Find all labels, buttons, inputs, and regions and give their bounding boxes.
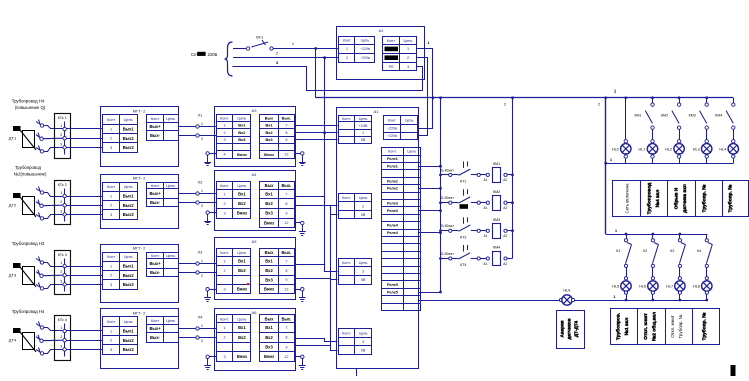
- label 1 top lamp return: [610, 157, 613, 162]
- svg-text:Откл. юнит: Откл. юнит: [643, 313, 649, 340]
- svg-text:Цепь: Цепь: [359, 332, 368, 336]
- lamp feed vertical right: [604, 98, 607, 234]
- svg-text:Вх2: Вх2: [238, 335, 246, 340]
- svg-text:Цепь: Цепь: [405, 119, 414, 123]
- svg-text:КТс 4: КТс 4: [58, 318, 67, 322]
- svg-text:2: 2: [223, 202, 225, 206]
- svg-text:Вых1: Вых1: [123, 127, 135, 132]
- А5 table left: [216, 249, 251, 294]
- wire HL0 feed: [625, 98, 627, 140]
- svg-text:Вх3: Вх3: [238, 137, 246, 142]
- svg-text:К1: К1: [616, 249, 620, 253]
- module MGT-2 #1: [101, 107, 179, 167]
- pipeline label channel 1: [12, 99, 46, 111]
- svg-text:№1 вкл: №1 вкл: [624, 318, 630, 336]
- svg-text:ДТ3: ДТ3: [9, 273, 17, 278]
- svg-text:Реле3: Реле3: [387, 209, 398, 213]
- bus label 2a: [504, 103, 506, 107]
- svg-text:Вниз: Вниз: [237, 287, 247, 292]
- svg-text:Цепь: Цепь: [359, 196, 368, 200]
- svg-text:HL5: HL5: [612, 285, 619, 289]
- svg-text:Цепь: Цепь: [124, 185, 133, 189]
- svg-text:К2: К2: [643, 249, 647, 253]
- svg-text:Конт: Конт: [151, 117, 159, 121]
- svg-text:7: 7: [285, 326, 287, 330]
- svg-text:1: 1: [362, 131, 364, 135]
- svg-text:Вых3: Вых3: [123, 347, 135, 352]
- MGT-2 #4 table right: [147, 317, 179, 343]
- svg-text:Вх3: Вх3: [265, 345, 273, 350]
- ground left of А5: [204, 288, 216, 302]
- svg-text:1: 1: [346, 47, 348, 51]
- signal lamp HL2: [665, 140, 684, 164]
- legend box HL9: [557, 311, 585, 349]
- svg-text:К4: К4: [697, 249, 701, 253]
- A1 power table 220V: [383, 116, 417, 140]
- svg-text:3: 3: [110, 213, 112, 217]
- wires КТс 1 to MGT-2: [66, 129, 103, 148]
- svg-text:Конт: Конт: [107, 118, 115, 122]
- wire A2 N out to A1: [417, 58, 428, 136]
- signal lamp HL7: [666, 277, 685, 300]
- svg-text:Реле2: Реле2: [387, 187, 398, 191]
- svg-text:Цепь: Цепь: [124, 320, 133, 324]
- svg-text:Конт.: Конт.: [342, 117, 351, 121]
- svg-text:Цепь: Цепь: [359, 117, 368, 121]
- svg-text:Вых2: Вых2: [123, 273, 135, 278]
- bus label 1: [614, 89, 617, 94]
- svg-text:Вх1: Вх1: [238, 259, 246, 264]
- svg-text:1: 1: [201, 259, 203, 263]
- svg-text:Вх2: Вх2: [238, 268, 246, 273]
- connector X1: [178, 114, 216, 142]
- svg-text:8: 8: [285, 202, 287, 206]
- svg-text:Цепь: Цепь: [124, 255, 133, 259]
- wires КТс 2 to MGT-2: [66, 197, 103, 215]
- relay contact К1: [616, 233, 631, 277]
- svg-text:КМ3: КМ3: [689, 114, 696, 118]
- svg-text:Б.Юнит: Б.Юнит: [441, 252, 454, 256]
- svg-text:HL7: HL7: [666, 285, 673, 289]
- terminal box КТс 3: [55, 251, 71, 295]
- timer contact KT2: [439, 189, 470, 209]
- svg-text:1: 1: [110, 195, 112, 199]
- svg-text:КМ2: КМ2: [661, 114, 668, 118]
- svg-text:SF1: SF1: [256, 35, 264, 40]
- A1 table XT2: [338, 193, 372, 219]
- svg-text:1: 1: [110, 128, 112, 132]
- svg-text:Конт.: Конт.: [388, 119, 396, 123]
- svg-text:8: 8: [285, 336, 287, 340]
- svg-text:1: 1: [110, 330, 112, 334]
- svg-text:Конт.: Конт.: [387, 39, 396, 43]
- svg-text:2: 2: [110, 137, 112, 141]
- ground right of А4: [296, 221, 306, 235]
- MGT-2 #2 table left: [103, 182, 138, 220]
- temperature sensor ДТ2: [9, 187, 44, 221]
- module MGT-2 #2: [101, 175, 179, 229]
- svg-text:Реле4: Реле4: [387, 231, 399, 235]
- A1 table XT3: [338, 258, 372, 284]
- svg-text:Вниз: Вниз: [264, 354, 274, 359]
- svg-text:Цепь: Цепь: [404, 39, 413, 43]
- svg-text:Вых3: Вых3: [123, 212, 135, 217]
- svg-text:X2: X2: [198, 181, 203, 185]
- legend box bottom lamps: [611, 308, 720, 344]
- svg-text:А4: А4: [252, 172, 258, 177]
- svg-text:Реле4: Реле4: [387, 224, 399, 228]
- wires sensor to КТс 3: [43, 263, 63, 289]
- timer contact KT3: [439, 217, 470, 239]
- svg-text:Цепь: Цепь: [237, 184, 246, 188]
- timer contact KT4: [439, 245, 470, 267]
- wire number 1 (top): [292, 41, 295, 46]
- svg-text:А1: А1: [484, 262, 488, 266]
- svg-text:HL3: HL3: [693, 147, 700, 151]
- ground right of А5: [296, 288, 306, 302]
- svg-text:МГТ- 2: МГТ- 2: [133, 246, 146, 251]
- svg-text:HL0: HL0: [612, 147, 619, 151]
- wires A6 to A1 XT4: [296, 339, 338, 351]
- svg-text:КМ4: КМ4: [493, 246, 500, 250]
- svg-text:Трубопровод Н3: Трубопровод Н3: [12, 241, 45, 246]
- ground right of А3: [296, 152, 306, 166]
- temperature sensor ДТ4: [9, 322, 44, 356]
- svg-text:Вых-: Вых-: [150, 200, 161, 205]
- MGT-2 #1 table right: [147, 115, 179, 141]
- svg-text:2: 2: [60, 200, 62, 204]
- svg-text:А6: А6: [252, 310, 258, 315]
- svg-text:А5: А5: [252, 239, 258, 244]
- signal lamp HL4: [719, 140, 738, 164]
- svg-text:Реле5: Реле5: [387, 283, 398, 287]
- svg-text:2: 2: [362, 204, 364, 208]
- wire N drop: [323, 56, 326, 134]
- svg-text:Трубопровод: Трубопровод: [646, 183, 653, 215]
- ground left of А3: [204, 152, 216, 166]
- connector X2: [178, 181, 216, 209]
- svg-text:Вх2: Вх2: [265, 201, 273, 206]
- svg-text:8: 8: [285, 269, 287, 273]
- svg-text:3: 3: [362, 269, 364, 273]
- svg-text:Цепь: Цепь: [124, 118, 133, 122]
- svg-text:Вх2: Вх2: [265, 130, 273, 135]
- svg-text:Конт.: Конт.: [343, 39, 351, 43]
- vertical net 0V chain B: [330, 205, 332, 345]
- svg-text:~220в: ~220в: [360, 47, 370, 51]
- svg-text:Вх2: Вх2: [238, 201, 246, 206]
- svg-text:1: 1: [201, 189, 203, 193]
- svg-text:А2: А2: [379, 28, 385, 33]
- terminal box КТс 2: [55, 181, 71, 225]
- svg-text:Вых3: Вых3: [123, 145, 135, 150]
- svg-text:датчиков: датчиков: [567, 318, 572, 339]
- svg-text:Б.Юнит: Б.Юнит: [441, 224, 454, 228]
- svg-text:PE: PE: [389, 65, 395, 69]
- svg-text:Трубопровод Н4: Трубопровод Н4: [12, 309, 45, 314]
- signal lamp HL8: [693, 277, 712, 300]
- controller A1: [337, 108, 419, 369]
- contactor coil KM1: [471, 162, 513, 182]
- svg-text:1: 1: [60, 326, 62, 330]
- svg-text:Цепь: Цепь: [237, 317, 246, 321]
- signal lamp HL3: [693, 140, 712, 164]
- MGT-2 #2 table right: [147, 182, 179, 207]
- А5 table right: [260, 249, 295, 294]
- svg-text:Цепь: Цепь: [166, 254, 175, 258]
- wires A1 relay outputs: [419, 165, 442, 294]
- svg-text:Вых2: Вых2: [123, 136, 135, 141]
- svg-text:7: 7: [285, 259, 287, 263]
- svg-text:Вых.: Вых.: [281, 183, 291, 188]
- svg-text:Вниз: Вниз: [237, 211, 247, 216]
- svg-text:3: 3: [407, 65, 409, 69]
- svg-text:Вых.: Вых.: [281, 316, 291, 321]
- svg-text:8: 8: [285, 131, 287, 135]
- svg-text:Конт.: Конт.: [220, 116, 229, 120]
- svg-text:Вниз: Вниз: [237, 354, 247, 359]
- svg-text:HL1: HL1: [639, 147, 646, 151]
- svg-text:3: 3: [223, 355, 225, 359]
- svg-text:Вх1: Вх1: [238, 192, 246, 197]
- А4 table right: [260, 182, 295, 228]
- svg-text:Реле5: Реле5: [387, 290, 398, 294]
- wires A4 to A1 XT2: [296, 197, 338, 215]
- MGT-2 #3 table right: [147, 252, 179, 277]
- svg-text:2: 2: [201, 204, 203, 208]
- svg-text:7: 7: [285, 193, 287, 197]
- svg-text:HL9: HL9: [563, 289, 570, 293]
- svg-text:А1: А1: [484, 206, 488, 210]
- svg-text:HL2: HL2: [665, 147, 672, 151]
- temperature sensor ДТ3: [9, 257, 44, 291]
- wire PE run: [233, 67, 423, 91]
- connector X3: [178, 251, 216, 279]
- svg-text:1: 1: [223, 259, 225, 263]
- brace for mains: [225, 42, 233, 76]
- svg-text:Конт.: Конт.: [220, 317, 229, 321]
- timer contact KT1: [439, 161, 470, 183]
- contactor contact КМ3: [689, 98, 709, 142]
- wires A5 to A1 XT3: [296, 265, 338, 280]
- svg-text:Вх3: Вх3: [265, 277, 273, 282]
- svg-text:МГТ- 2: МГТ- 2: [133, 176, 146, 181]
- black corner mark: [731, 365, 736, 376]
- return wire bottom with lamp HL9: [419, 289, 709, 306]
- svg-text:МГТ- 2: МГТ- 2: [133, 109, 146, 114]
- svg-text:Вниз: Вниз: [264, 152, 274, 157]
- svg-text:(повышение Q): (повышение Q): [15, 105, 46, 110]
- svg-text:Цепь: Цепь: [166, 319, 175, 323]
- svg-text:№2 общ.вкл: №2 общ.вкл: [651, 312, 658, 341]
- ground right of А6: [296, 355, 306, 369]
- svg-text:А1: А1: [484, 234, 488, 238]
- vertical net 0V chain A: [324, 58, 326, 271]
- svg-text:Вниз: Вниз: [264, 220, 274, 225]
- svg-text:2: 2: [60, 133, 62, 137]
- svg-text:Конт: Конт: [151, 254, 159, 258]
- contactor coil KM2: [471, 190, 513, 211]
- MGT-2 #4 table left: [103, 317, 138, 355]
- module А5: [215, 238, 296, 300]
- svg-text:А3: А3: [252, 108, 258, 113]
- svg-text:Цепь: Цепь: [361, 39, 369, 43]
- svg-text:1: 1: [60, 191, 62, 195]
- wires sensor to КТс 4: [43, 328, 63, 354]
- svg-text:9: 9: [285, 345, 287, 349]
- module А6: [215, 309, 296, 371]
- svg-text:Цепь: Цепь: [166, 117, 175, 121]
- A1 table XT1: [338, 116, 372, 144]
- svg-text:1: 1: [407, 47, 409, 51]
- svg-text:2: 2: [110, 339, 112, 343]
- svg-text:4: 4: [362, 340, 364, 344]
- svg-text:0В: 0В: [361, 349, 366, 353]
- svg-text:КМ3: КМ3: [493, 218, 500, 222]
- svg-text:2: 2: [346, 56, 348, 60]
- svg-text:№4 вкл: №4 вкл: [655, 190, 661, 208]
- svg-text:2: 2: [201, 339, 203, 343]
- svg-text:HL6: HL6: [639, 285, 646, 289]
- junction coil KM2 return: [511, 201, 514, 204]
- svg-text:Вх1: Вх1: [238, 325, 246, 330]
- A1 bottom stub: [356, 369, 358, 376]
- svg-text:1: 1: [201, 324, 203, 328]
- svg-text:КМ1: КМ1: [634, 114, 641, 118]
- svg-text:Вых2: Вых2: [123, 338, 135, 343]
- red dot artifact: [247, 283, 249, 285]
- terminal box КТс 1: [55, 114, 71, 159]
- svg-text:~220в: ~220в: [387, 127, 397, 131]
- А3 table right: [260, 115, 295, 159]
- svg-text:А2: А2: [503, 234, 507, 238]
- svg-text:Цепь: Цепь: [237, 116, 246, 120]
- contactor contact КМ2: [661, 98, 681, 142]
- contactor contact КМ1: [634, 98, 654, 142]
- svg-text:2: 2: [407, 56, 409, 60]
- svg-text:Вых+: Вых+: [149, 124, 161, 129]
- svg-text:3: 3: [60, 142, 62, 146]
- signal lamp HL0: [612, 140, 631, 164]
- pipeline label channel 2: [14, 165, 48, 177]
- svg-text:А1: А1: [374, 109, 380, 114]
- ground left of А6: [204, 355, 216, 369]
- svg-text:Вых.: Вых.: [281, 250, 291, 255]
- svg-text:1: 1: [223, 124, 225, 128]
- svg-text:3: 3: [110, 348, 112, 352]
- relay contact К4: [697, 234, 712, 277]
- svg-text:Вых+: Вых+: [149, 326, 161, 331]
- svg-text:Вых1: Вых1: [123, 194, 135, 199]
- svg-text:ДТ1: ДТ1: [9, 136, 17, 141]
- svg-text:КТс 1: КТс 1: [58, 116, 67, 120]
- svg-text:Трубопр. №: Трубопр. №: [701, 184, 708, 212]
- svg-text:~220в: ~220в: [360, 56, 370, 60]
- svg-text:12: 12: [284, 221, 288, 225]
- svg-text:2: 2: [201, 274, 203, 278]
- svg-text:3: 3: [223, 212, 225, 216]
- svg-text:Вх1: Вх1: [265, 325, 273, 330]
- svg-text:9: 9: [285, 138, 287, 142]
- svg-text:К3: К3: [670, 249, 674, 253]
- svg-text:Трубопр. №: Трубопр. №: [727, 184, 734, 212]
- svg-text:12: 12: [284, 355, 288, 359]
- svg-text:+24В: +24В: [359, 124, 368, 128]
- А4 table left: [216, 182, 251, 219]
- A1 relay table: [382, 148, 421, 311]
- svg-text:КТ1: КТ1: [460, 179, 466, 183]
- svg-text:3: 3: [60, 209, 62, 213]
- svg-text:Трубопров.: Трубопров.: [615, 313, 622, 340]
- svg-text:2: 2: [598, 103, 600, 107]
- svg-text:Вниз: Вниз: [264, 287, 274, 292]
- svg-text:~220в: ~220в: [387, 134, 397, 138]
- svg-text:Сеть включена: Сеть включена: [625, 183, 630, 214]
- svg-text:Конт: Конт: [107, 255, 115, 259]
- svg-text:Трубопр. №: Трубопр. №: [701, 312, 708, 340]
- signal lamp HL1: [639, 140, 658, 164]
- svg-text:Конт.: Конт.: [342, 332, 351, 336]
- svg-text:3: 3: [223, 288, 225, 292]
- bottom bus corner right: [707, 234, 709, 236]
- bus label 2b: [598, 103, 600, 107]
- svg-text:Вх1: Вх1: [238, 123, 246, 128]
- svg-text:А1: А1: [484, 178, 488, 182]
- svg-text:Вх1: Вх1: [265, 123, 273, 128]
- svg-text:Вниз: Вниз: [237, 152, 247, 157]
- svg-text:Цепь: Цепь: [166, 184, 175, 188]
- wire L drop to bus: [314, 47, 317, 98]
- module MGT-2 #4: [101, 309, 179, 369]
- svg-text:Реле3: Реле3: [387, 202, 398, 206]
- lamp feed bus bottom group: [605, 234, 708, 236]
- svg-text:2: 2: [223, 269, 225, 273]
- svg-text:1: 1: [201, 122, 203, 126]
- svg-text:Конт.: Конт.: [342, 196, 351, 200]
- svg-text:ДТ-ДТ4: ДТ-ДТ4: [574, 320, 579, 337]
- svg-text:Вх2: Вх2: [265, 335, 273, 340]
- contactor coil KM4: [471, 246, 513, 266]
- svg-text:МГТ- 2: МГТ- 2: [133, 311, 146, 316]
- svg-text:12: 12: [284, 288, 288, 292]
- svg-text:12: 12: [284, 153, 288, 157]
- svg-text:2: 2: [201, 137, 203, 141]
- svg-text:1: 1: [223, 193, 225, 197]
- signal lamp HL6: [639, 277, 658, 300]
- wires КТс 4 to MGT-2: [66, 331, 103, 350]
- svg-text:Вх2: Вх2: [238, 130, 246, 135]
- svg-text:Реле2: Реле2: [387, 179, 398, 183]
- svg-text:Вых+: Вых+: [149, 261, 161, 266]
- wire L2: [233, 57, 339, 59]
- svg-text:1: 1: [110, 265, 112, 269]
- lamp return bus top group: [606, 163, 734, 165]
- svg-text:Вых1: Вых1: [123, 329, 135, 334]
- svg-text:0В: 0В: [361, 278, 366, 282]
- svg-text:Вх3: Вх3: [265, 211, 273, 216]
- svg-text:4: 4: [223, 153, 225, 157]
- pipeline label channel 4: [12, 309, 45, 314]
- net label Сеть ~220В: [191, 52, 218, 57]
- svg-text:датчика вкл: датчика вкл: [683, 184, 688, 213]
- wires КТс 3 to MGT-2: [66, 267, 103, 285]
- ground left of А4: [204, 211, 216, 225]
- svg-text:Вых3: Вых3: [123, 282, 135, 287]
- relay contact К2: [643, 233, 658, 277]
- svg-text:2: 2: [223, 131, 225, 135]
- svg-text:Вых: Вых: [265, 250, 274, 255]
- svg-text:КМ2: КМ2: [493, 190, 500, 194]
